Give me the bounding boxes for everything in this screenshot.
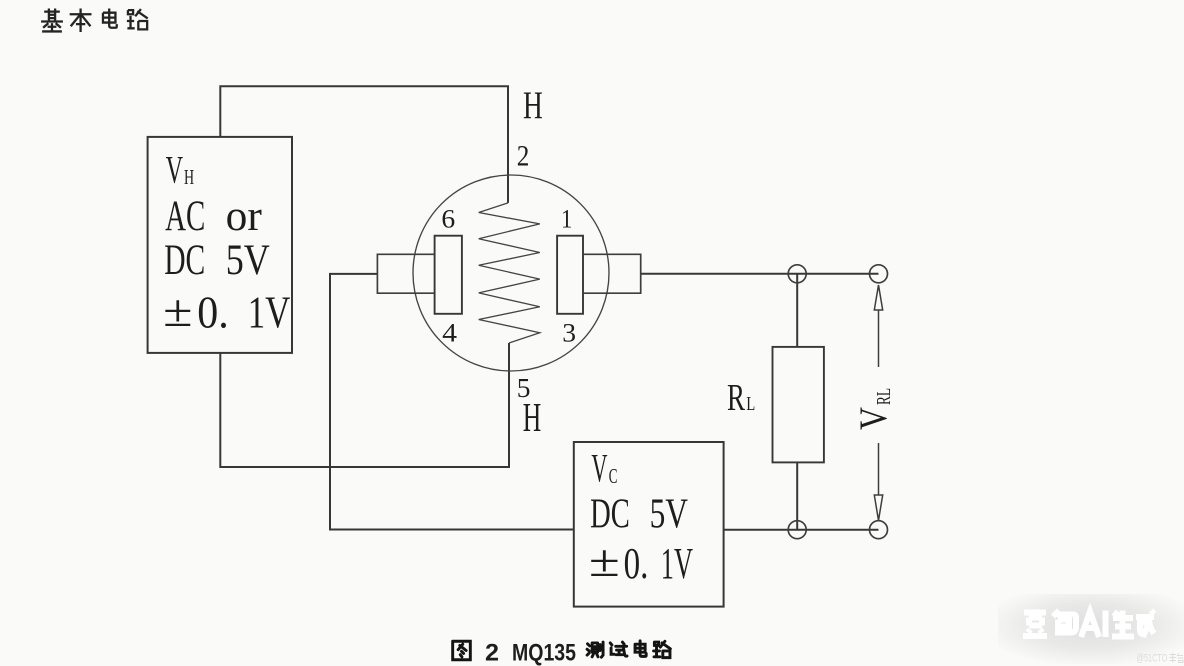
svg-text:RL: RL	[873, 388, 895, 405]
electrode plate right (pins 1/3)	[557, 236, 583, 314]
svg-text:0.: 0.	[624, 539, 649, 588]
VRL measurement arrow up	[874, 285, 882, 367]
svg-text:1V: 1V	[248, 288, 291, 338]
电	[103, 9, 117, 28]
title 基本电路 (hand-drawn CJK strokes)	[41, 9, 148, 32]
node: top right terminal	[870, 265, 888, 283]
watermark @51CTO博客	[1137, 653, 1184, 665]
svg-text:5V: 5V	[226, 237, 270, 284]
right lead tab	[583, 254, 641, 293]
VRL measurement arrow down	[874, 443, 882, 521]
基	[41, 9, 63, 32]
heater zigzag inside sensor	[479, 203, 540, 343]
svg-text:1: 1	[561, 204, 572, 233]
wire: top node to RL top	[796, 274, 798, 347]
本	[70, 9, 92, 32]
electrode plate left (pins 6/4)	[435, 236, 462, 314]
wire: RL bottom to bottom node	[796, 462, 798, 529]
wire: sensor left tab to VC box left	[330, 274, 574, 530]
svg-text:4: 4	[442, 318, 457, 347]
left lead tab	[377, 254, 434, 293]
svg-text:6: 6	[441, 204, 455, 233]
watermark 豆包AI生成 (white on gray glow)	[998, 594, 1184, 664]
wires and components	[220, 86, 878, 530]
resistor RL body	[773, 347, 824, 463]
svg-text:3: 3	[562, 318, 576, 347]
试 glyph	[610, 642, 627, 656]
svg-text:H: H	[184, 165, 194, 189]
svg-text:1V: 1V	[661, 539, 693, 588]
wire: VH bottom to pin5 (bottom heater return)	[220, 343, 509, 467]
豆	[1023, 613, 1047, 637]
svg-text:0.: 0.	[197, 288, 229, 338]
图 glyph	[453, 641, 471, 659]
VH source box	[148, 137, 292, 353]
sensor MQ135 envelope circle	[413, 175, 609, 371]
I	[1103, 611, 1109, 638]
包	[1053, 611, 1076, 633]
wire: top heater wire VH top to pin2	[220, 86, 508, 203]
svg-text:2: 2	[517, 140, 530, 173]
caption 图 2 MQ135 测试电路	[453, 640, 671, 666]
label VRL (rotated)	[852, 388, 895, 430]
svg-text:L: L	[746, 393, 755, 415]
svg-text:5V: 5V	[650, 492, 688, 538]
路	[127, 9, 148, 29]
svg-text:V: V	[591, 446, 607, 491]
svg-text:V: V	[166, 149, 183, 192]
svg-text:2: 2	[485, 640, 499, 666]
wire: VC right to bottom nodes	[724, 529, 879, 531]
VC source box	[574, 442, 724, 607]
svg-text:AC: AC	[165, 193, 205, 240]
node: bottom right terminal	[870, 521, 888, 539]
svg-text:DC: DC	[590, 492, 630, 538]
svg-text:R: R	[727, 377, 745, 419]
svg-text:H: H	[523, 84, 543, 127]
成	[1136, 611, 1154, 638]
svg-text:MQ135: MQ135	[512, 640, 576, 666]
A	[1081, 612, 1099, 638]
svg-text:±: ±	[589, 535, 620, 586]
node: top left terminal	[788, 265, 806, 283]
路 glyph	[654, 641, 671, 657]
wire: sensor right tab to top nodes	[641, 273, 879, 275]
node: bottom left terminal	[788, 521, 806, 539]
电 glyph	[635, 641, 646, 657]
svg-text:or: or	[226, 193, 262, 240]
svg-text:H: H	[523, 394, 542, 440]
svg-text:±: ±	[163, 285, 192, 336]
svg-text:DC: DC	[164, 237, 205, 284]
svg-text:C: C	[609, 464, 618, 488]
生	[1112, 611, 1134, 637]
svg-text:V: V	[852, 407, 895, 430]
测 glyph	[587, 642, 603, 657]
svg-text:@51CTO: @51CTO	[1137, 653, 1168, 665]
